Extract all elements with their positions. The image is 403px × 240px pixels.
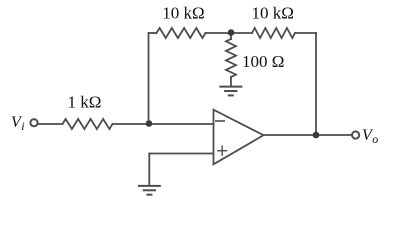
resistor R2 10 kOhm xyxy=(252,28,295,38)
resistor R3 1 kOhm xyxy=(63,119,113,129)
svg-text:10 kΩ: 10 kΩ xyxy=(252,4,294,23)
wire R2 to right corner xyxy=(295,32,316,34)
wire left vertical feedback xyxy=(148,33,150,124)
wire noninverting to ground xyxy=(148,154,150,186)
resistor R4 100 Ohm xyxy=(226,39,236,77)
wire node A to R4 xyxy=(230,33,232,39)
wire input Vi to R3 xyxy=(38,123,63,125)
svg-text:100 Ω: 100 Ω xyxy=(242,52,284,71)
junction node at inverting input xyxy=(146,120,153,127)
ground G1 below R4 xyxy=(219,87,242,96)
svg-text:1 kΩ: 1 kΩ xyxy=(68,93,102,112)
wire top left to R1 xyxy=(149,32,157,34)
svg-text:10 kΩ: 10 kΩ xyxy=(162,4,204,23)
junction node A between R1 R2 R4 xyxy=(228,29,235,36)
terminal Vo xyxy=(352,131,359,138)
wire op-amp noninverting input xyxy=(149,153,213,155)
wire op-amp output to Vo xyxy=(264,134,353,136)
svg-text:Vo: Vo xyxy=(362,127,378,146)
op-amp minus pin symbol xyxy=(215,120,225,122)
op-amp plus pin symbol xyxy=(217,146,227,156)
wire R3 to op-amp inverting input xyxy=(113,123,214,125)
wire right vertical to output xyxy=(315,33,317,135)
junction node at output xyxy=(313,132,320,139)
op-amp U1 xyxy=(214,110,264,165)
wire R4 to ground xyxy=(230,77,232,86)
terminal Vi xyxy=(30,119,37,126)
svg-text:Vi: Vi xyxy=(11,114,25,133)
wire R1 to node A xyxy=(206,32,253,34)
ground G2 below noninverting input xyxy=(138,186,161,195)
resistor R1 10 kOhm xyxy=(157,28,206,38)
